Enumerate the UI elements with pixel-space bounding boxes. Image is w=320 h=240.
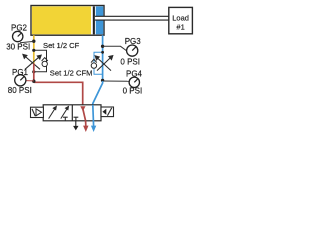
- svg-text:Set 1/2 CFM: Set 1/2 CFM: [50, 68, 93, 77]
- node FC1 top junction: [32, 49, 35, 52]
- svg-text:#1: #1: [176, 22, 184, 31]
- node FC2 top junction: [101, 51, 104, 54]
- svg-text:0 PSI: 0 PSI: [123, 87, 143, 96]
- valve V1 blocked port T1: [63, 117, 68, 121]
- wire blue jog to valve: [93, 81, 103, 105]
- wire PG1 connector: [26, 80, 34, 82]
- svg-text:80 PSI: 80 PSI: [8, 86, 32, 95]
- wire PG3 connector: [103, 46, 127, 51]
- cylinder rod: [95, 16, 169, 20]
- node junction blue PG3: [101, 45, 104, 48]
- valve V1 left square arrow 1: [49, 106, 57, 118]
- wire yellow cap-end line: [33, 35, 35, 63]
- node junction on yellow line: [32, 40, 35, 43]
- gauge PG2: [6, 23, 30, 51]
- valve V1 blocked port T2: [74, 117, 79, 121]
- red flow path through valve: [80, 106, 88, 132]
- wire blue rod-end line: [102, 35, 104, 81]
- node red tee: [32, 80, 35, 83]
- wire red supply to valve: [34, 82, 83, 105]
- valve V1 divider: [71, 105, 73, 121]
- svg-text:0 PSI: 0 PSI: [120, 57, 140, 66]
- valve V1 left square arrow 2: [61, 106, 69, 118]
- check valve seat FC1: [42, 58, 48, 61]
- wire PG4 connector: [103, 80, 131, 82]
- blue flow path through valve: [91, 105, 96, 132]
- flow control FC1 adjustable arrows: [23, 54, 41, 69]
- svg-text:PG1: PG1: [12, 68, 29, 77]
- node junction blue PG4: [101, 79, 104, 82]
- svg-text:Load: Load: [172, 13, 189, 22]
- svg-text:PG3: PG3: [125, 37, 142, 46]
- node FC1 bottom junction: [32, 70, 35, 73]
- load box Load #1: [169, 7, 193, 33]
- check valve ball FC1: [42, 61, 47, 66]
- flow control FC1 bypass loop: [34, 50, 47, 72]
- svg-text:30 PSI: 30 PSI: [6, 43, 30, 52]
- valve V1 exhaust arrow: [73, 121, 78, 131]
- gauge PG1: [8, 68, 32, 95]
- svg-text:PG2: PG2: [11, 23, 28, 32]
- wire PG2 connector: [20, 41, 34, 42]
- gauge PG3: [120, 37, 141, 67]
- wire red line below FC1: [33, 64, 35, 83]
- svg-text:Set 1/2 CF: Set 1/2 CF: [43, 41, 80, 50]
- valve V1 right lever box: [101, 107, 114, 117]
- cylinder piston: [93, 6, 95, 34]
- flow control FC2 bypass loop: [94, 52, 103, 74]
- svg-text:PG4: PG4: [126, 69, 143, 78]
- valve V1 body: [43, 105, 101, 121]
- valve V1 left pilot box: [31, 107, 44, 117]
- flow control FC2 adjustable arrows: [95, 56, 113, 71]
- check valve seat FC2: [91, 59, 97, 62]
- cylinder C1 barrel: [31, 6, 104, 36]
- gauge PG4: [123, 69, 143, 95]
- check valve ball FC2: [91, 63, 96, 68]
